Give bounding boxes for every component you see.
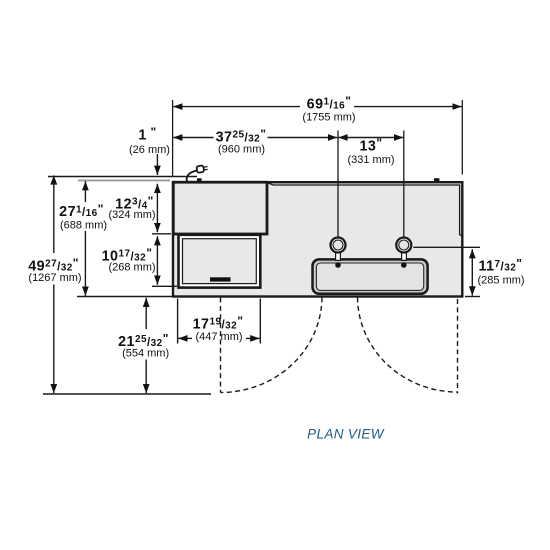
door swing arc left <box>221 298 323 393</box>
dim 12 3/4 line <box>156 184 158 232</box>
svg-text:117/32": 117/32" <box>479 256 523 274</box>
sink basin outer <box>313 259 428 293</box>
opening right extension down <box>259 299 261 344</box>
handle <box>210 277 231 281</box>
faucet vertical line 2 <box>403 131 405 237</box>
wall line <box>48 176 197 178</box>
door swing dashed right vertical <box>457 299 459 394</box>
svg-text:(1267 mm): (1267 mm) <box>28 272 81 284</box>
dim 1in arrow down <box>156 154 158 175</box>
svg-text:(268 mm): (268 mm) <box>108 262 155 274</box>
bottom right extension <box>465 296 480 298</box>
dim 21 25/32 line upper <box>145 298 147 329</box>
dim 27 1/16 line lower <box>84 231 86 296</box>
plug <box>196 165 204 173</box>
faucet stem 1 <box>336 253 341 261</box>
power cord <box>187 171 197 182</box>
svg-text:(688 mm): (688 mm) <box>60 220 107 232</box>
dim 10 17/32 line <box>156 236 158 285</box>
ice bin box top-left <box>173 182 267 234</box>
faucet circle 2 <box>396 238 411 253</box>
bottom edge extension to left <box>77 296 172 298</box>
dim 13 line <box>338 137 403 139</box>
faucet vertical line 1 <box>337 131 339 237</box>
dim 17 19/32 right arrow <box>246 337 260 339</box>
faucet stem 2 <box>402 253 407 261</box>
door swing arc right <box>358 298 458 393</box>
opening left extension down <box>177 299 179 344</box>
svg-text:1 ": 1 " <box>138 125 156 143</box>
dim 49 27/32 line upper <box>53 175 55 253</box>
dim 69 1/16 line <box>173 106 300 108</box>
faucet circle 1 <box>331 238 346 253</box>
door swing dashed left vertical <box>220 298 222 393</box>
svg-text:(1755 mm): (1755 mm) <box>302 112 355 124</box>
box bottom extension <box>152 233 171 235</box>
svg-text:PLAN VIEW: PLAN VIEW <box>307 427 385 442</box>
dim 17 19/32 left arrow <box>178 337 192 339</box>
junction block on box top <box>197 178 202 182</box>
svg-text:(285 mm): (285 mm) <box>478 275 525 287</box>
bottom datum line <box>43 393 211 395</box>
extension line left top dims <box>172 100 174 176</box>
dim 49 27/32 line lower <box>53 285 55 394</box>
inset panel line top-right <box>268 183 463 237</box>
dim 21 25/32 line lower <box>145 360 147 394</box>
dim 27 1/16 line upper <box>84 181 86 202</box>
dim 11 7/32 line <box>471 249 473 295</box>
svg-text:(554 mm): (554 mm) <box>122 348 169 360</box>
svg-text:1719/32": 1719/32" <box>193 314 244 332</box>
counter body <box>173 182 462 296</box>
svg-text:(26 mm): (26 mm) <box>129 144 170 156</box>
opening inner <box>183 239 257 284</box>
gray datum line <box>78 179 170 181</box>
drain dot 2 <box>401 262 407 268</box>
sink basin inner <box>316 263 423 290</box>
svg-text:13": 13" <box>360 136 383 154</box>
svg-text:(447 mm): (447 mm) <box>195 331 242 343</box>
svg-text:691/16": 691/16" <box>307 94 352 112</box>
svg-text:271/16": 271/16" <box>59 202 104 220</box>
svg-text:(960 mm): (960 mm) <box>218 143 265 155</box>
svg-text:(331 mm): (331 mm) <box>347 154 394 166</box>
opening outer <box>179 235 261 288</box>
extension line right top dims <box>461 100 463 175</box>
faucet datum line to right edge <box>413 246 480 248</box>
opening bottom extension <box>152 285 177 287</box>
bump on counter top right <box>434 178 439 181</box>
drain dot 1 <box>335 262 341 268</box>
dim 37 25/32 line <box>173 137 213 139</box>
svg-text:(324 mm): (324 mm) <box>108 209 155 221</box>
